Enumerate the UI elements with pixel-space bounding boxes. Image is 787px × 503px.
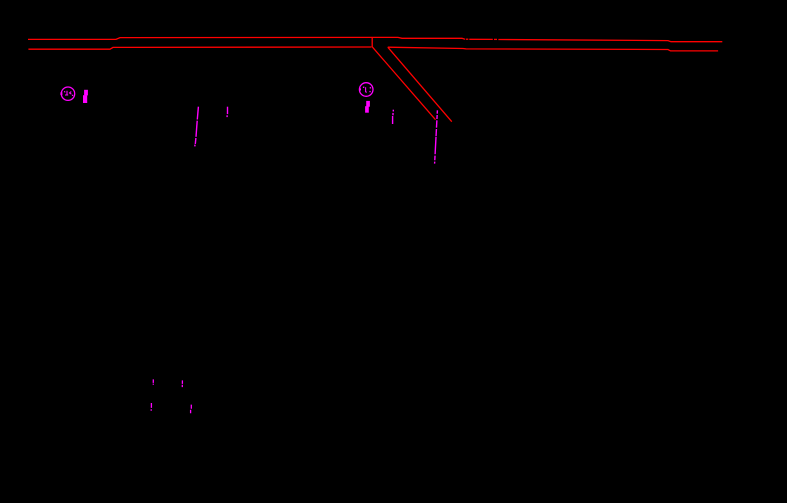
wire: top road edge line (left segment) <box>28 37 465 39</box>
node: circle 1 left notch bump <box>60 92 62 95</box>
wire: bottom road edge line (left of junction) <box>28 47 371 49</box>
wire: bottom road edge line (right of junction) <box>388 47 718 51</box>
wire: top road edge dash a <box>466 38 469 40</box>
node: utility symbol circle 2 <box>359 83 373 97</box>
component: marker bar 2 lower part <box>365 106 369 113</box>
node: circle 2 left notch bump <box>359 88 361 90</box>
node: circle 1 glyph dot <box>72 95 73 96</box>
node: bottom dash cluster 3 (bottom-left) <box>150 403 152 411</box>
wire: dashed service line mid (dash) <box>392 113 394 115</box>
node: utility symbol circle 1 <box>61 87 74 100</box>
wire: top road edge dash c <box>494 38 497 40</box>
node: bottom dash cluster 2 (top-right) <box>181 380 183 387</box>
component: marker bar 1 upper part <box>84 90 88 96</box>
wire: dashed service line mid (long dash) <box>392 116 394 124</box>
node: bottom dash cluster 4 (bottom-right) <box>190 405 193 414</box>
wire: short dashed stub (dash) <box>227 107 229 114</box>
component: marker bar 2 upper part <box>366 101 370 107</box>
wire: dashed service line right long <box>435 110 438 163</box>
wire: short dashed stub (dot) <box>226 115 228 117</box>
node: circle 2 glyph dot c <box>369 91 370 92</box>
node: bottom dash cluster 1 (top-left) <box>152 379 154 384</box>
wire: top road edge dash b <box>469 38 493 40</box>
node: circle 1 glyph tick <box>64 91 65 92</box>
wire: dashed service line left (middle dash) <box>196 121 197 137</box>
wire: dashed service line left (upper dash) <box>197 107 198 120</box>
component: marker bar 1 lower part <box>83 95 87 103</box>
wire: top road edge line (right segment) <box>498 40 722 42</box>
node: circle 2 glyph stroke <box>366 87 367 92</box>
wire: dashed service line mid (dot) <box>392 110 394 112</box>
node: circle 2 glyph dot b <box>370 87 371 88</box>
node: circle 2 glyph dot a <box>363 87 364 88</box>
wire: branch road left edge with stub to top line <box>372 38 435 120</box>
wire: dashed service line left (end dot) <box>194 145 196 147</box>
node: circle 1 glyph L-stroke <box>65 91 68 95</box>
node: circle 1 glyph chevron <box>70 92 72 95</box>
wire: dashed service line left (lower dash) <box>194 138 197 144</box>
wire: branch road right edge diagonal <box>388 47 452 122</box>
